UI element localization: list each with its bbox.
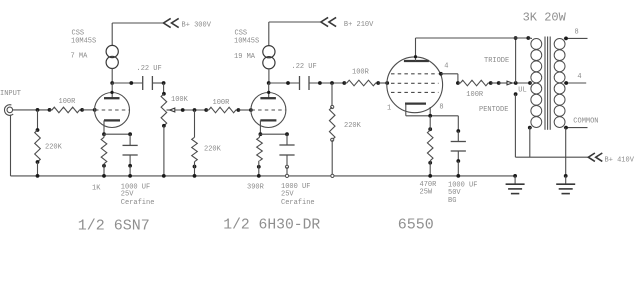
svg-text:100R: 100R (213, 99, 231, 107)
svg-text:BG: BG (448, 197, 456, 205)
svg-text:.22 UF: .22 UF (137, 65, 162, 73)
svg-text:CSS: CSS (72, 30, 85, 38)
svg-text:1K: 1K (92, 185, 101, 193)
svg-text:COMMON: COMMON (573, 118, 598, 126)
svg-text:220K: 220K (344, 122, 362, 130)
svg-text:TRIODE: TRIODE (484, 57, 509, 65)
svg-text:Cerafine: Cerafine (281, 199, 315, 207)
svg-text:50V: 50V (448, 189, 461, 197)
svg-text:100R: 100R (466, 91, 484, 99)
svg-text:B+ 210V: B+ 210V (344, 21, 374, 29)
svg-text:B+ 300V: B+ 300V (182, 22, 212, 30)
svg-text:25V: 25V (121, 191, 134, 199)
svg-text:25V: 25V (281, 191, 294, 199)
svg-text:7 MA: 7 MA (71, 53, 89, 61)
svg-text:390R: 390R (247, 184, 265, 192)
svg-text:10M45S: 10M45S (71, 38, 96, 46)
svg-text:CSS: CSS (235, 30, 248, 38)
svg-text:4: 4 (444, 63, 448, 71)
svg-text:PENTODE: PENTODE (479, 106, 508, 114)
svg-text:19 MA: 19 MA (234, 53, 256, 61)
svg-text:INPUT: INPUT (0, 90, 21, 98)
svg-text:.22 UF: .22 UF (292, 63, 317, 71)
svg-text:3K 20W: 3K 20W (523, 10, 567, 24)
svg-text:100K: 100K (171, 96, 189, 104)
svg-text:220K: 220K (45, 144, 63, 152)
svg-text:8: 8 (439, 104, 443, 112)
svg-text:1/2 6SN7: 1/2 6SN7 (78, 218, 150, 235)
svg-text:4: 4 (577, 73, 581, 81)
svg-text:220K: 220K (204, 146, 222, 154)
svg-text:25W: 25W (420, 189, 433, 197)
svg-text:100R: 100R (352, 69, 370, 77)
svg-text:1: 1 (387, 105, 391, 113)
svg-text:8: 8 (575, 29, 579, 37)
svg-text:6550: 6550 (398, 217, 434, 234)
svg-text:Cerafine: Cerafine (121, 199, 155, 207)
svg-text:10M45S: 10M45S (234, 38, 259, 46)
svg-text:B+ 410V: B+ 410V (605, 157, 635, 165)
svg-text:1/2 6H30-DR: 1/2 6H30-DR (223, 218, 320, 234)
svg-text:UL: UL (518, 87, 526, 95)
svg-text:100R: 100R (59, 98, 77, 106)
